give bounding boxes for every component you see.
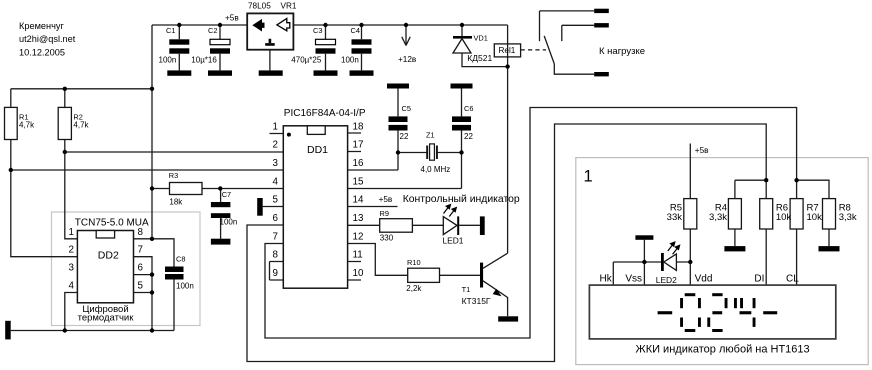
svg-text:3,3k: 3,3k (709, 212, 727, 223)
svg-text:1: 1 (273, 122, 278, 133)
svg-text:7: 7 (273, 232, 278, 243)
svg-text:VR1: VR1 (281, 2, 297, 11)
svg-text:КТ315Г: КТ315Г (462, 296, 491, 306)
svg-text:Vdd: Vdd (695, 274, 713, 285)
svg-text:LED2: LED2 (656, 275, 677, 285)
svg-text:термодатчик: термодатчик (78, 313, 135, 324)
svg-text:1: 1 (69, 227, 74, 238)
svg-text:9: 9 (273, 268, 278, 279)
svg-text:R9: R9 (380, 209, 389, 218)
svg-text:12: 12 (353, 232, 364, 243)
svg-text:Rel1: Rel1 (499, 46, 516, 55)
svg-text:22: 22 (464, 132, 473, 141)
svg-text:Контрольный индикатор: Контрольный индикатор (403, 194, 520, 205)
svg-text:330: 330 (380, 234, 394, 243)
svg-text:C5: C5 (402, 104, 411, 113)
svg-text:PIC16F84A-04-I/P: PIC16F84A-04-I/P (284, 108, 366, 119)
svg-text:КД521: КД521 (467, 53, 492, 63)
svg-text:78L05: 78L05 (248, 2, 271, 11)
svg-text:470µ*25: 470µ*25 (291, 55, 322, 64)
svg-text:3,3k: 3,3k (839, 212, 857, 223)
svg-text:8: 8 (138, 227, 144, 238)
svg-text:5: 5 (273, 195, 279, 206)
svg-text:8: 8 (273, 250, 279, 261)
svg-text:DD2: DD2 (98, 249, 119, 261)
svg-text:DI: DI (754, 274, 764, 285)
svg-text:+5в: +5в (379, 195, 393, 204)
svg-text:R3: R3 (169, 171, 178, 180)
svg-text:C8: C8 (176, 255, 185, 264)
svg-text:К нагрузке: К нагрузке (599, 46, 645, 57)
svg-text:2: 2 (273, 140, 278, 151)
svg-text:+5в: +5в (225, 13, 239, 22)
svg-text:Hk: Hk (600, 274, 613, 285)
svg-text:CL: CL (786, 274, 799, 285)
svg-text:2: 2 (69, 245, 74, 256)
svg-text:R10: R10 (407, 258, 421, 267)
svg-text:15: 15 (353, 177, 364, 188)
svg-text:VD1: VD1 (474, 34, 488, 43)
svg-text:4,0 MHz: 4,0 MHz (421, 165, 451, 174)
svg-text:ut2hi@qsl.net: ut2hi@qsl.net (19, 34, 76, 44)
svg-text:2,2k: 2,2k (406, 284, 422, 293)
svg-text:3: 3 (273, 158, 279, 169)
svg-text:7: 7 (138, 245, 143, 256)
svg-text:4: 4 (273, 177, 279, 188)
svg-text:C4: C4 (351, 26, 360, 35)
svg-text:17: 17 (353, 140, 364, 151)
svg-text:10k: 10k (776, 212, 792, 223)
svg-text:10.12.2005: 10.12.2005 (19, 48, 65, 58)
svg-text:+5в: +5в (695, 146, 709, 155)
svg-text:18k: 18k (169, 197, 183, 206)
svg-text:C1: C1 (166, 26, 175, 35)
svg-text:C2: C2 (208, 26, 217, 35)
svg-text:22: 22 (400, 132, 409, 141)
svg-text:3: 3 (69, 263, 75, 274)
svg-text:14: 14 (353, 195, 364, 206)
svg-text:11: 11 (353, 250, 363, 261)
svg-text:100n: 100n (341, 55, 359, 64)
svg-text:1: 1 (584, 168, 593, 186)
svg-text:C6: C6 (464, 104, 473, 113)
svg-text:C3: C3 (313, 26, 322, 35)
svg-text:5: 5 (138, 281, 144, 292)
svg-text:+12в: +12в (398, 55, 416, 64)
svg-text:LED1: LED1 (443, 236, 464, 246)
svg-text:4,7k: 4,7k (73, 121, 89, 130)
svg-text:DD1: DD1 (307, 144, 328, 156)
svg-text:Z1: Z1 (426, 131, 435, 140)
svg-text:10: 10 (353, 268, 364, 279)
svg-text:4,7k: 4,7k (19, 121, 35, 130)
svg-text:100n: 100n (176, 282, 194, 291)
svg-text:T1: T1 (462, 285, 471, 294)
svg-text:Vss: Vss (625, 274, 642, 285)
svg-text:6: 6 (273, 213, 279, 224)
svg-text:100n: 100n (159, 55, 177, 64)
svg-text:10µ*16: 10µ*16 (191, 55, 217, 64)
svg-text:13: 13 (353, 213, 364, 224)
svg-text:100n: 100n (220, 217, 238, 226)
svg-text:18: 18 (353, 122, 364, 133)
svg-text:Кременчуг: Кременчуг (19, 21, 64, 31)
svg-text:4: 4 (69, 281, 75, 292)
svg-text:10k: 10k (807, 212, 823, 223)
svg-text:ЖКИ индикатор любой на НТ1613: ЖКИ индикатор любой на НТ1613 (636, 344, 810, 356)
svg-text:6: 6 (138, 263, 144, 274)
svg-text:16: 16 (353, 158, 364, 169)
svg-text:33k: 33k (667, 212, 683, 223)
svg-text:C7: C7 (222, 190, 231, 199)
